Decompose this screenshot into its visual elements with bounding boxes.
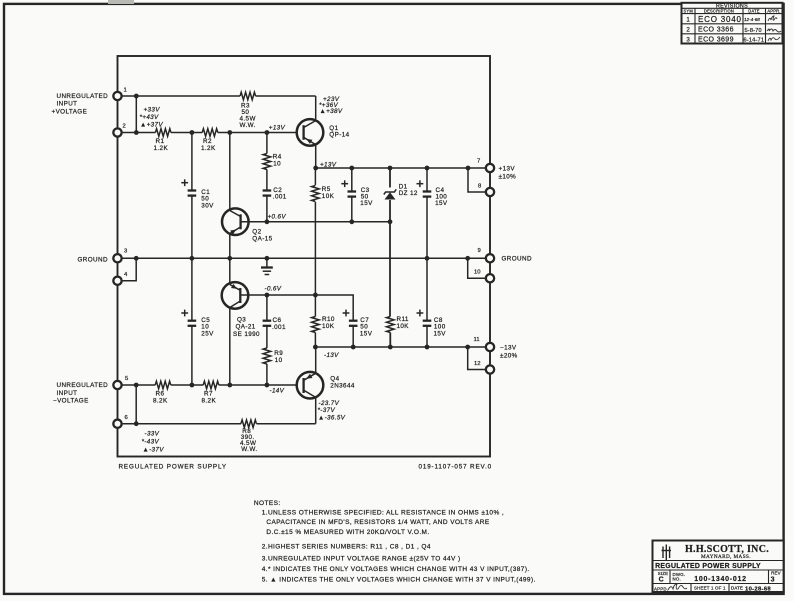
node D1 top xyxy=(388,166,393,171)
terminal 4 xyxy=(113,272,128,285)
node Q2/Q3 emitter ground xyxy=(227,256,232,261)
wire terminal 8 bracket xyxy=(468,168,490,192)
svg-text:11: 11 xyxy=(474,337,480,343)
node terminal 8 tap xyxy=(466,166,471,171)
resistor R9 xyxy=(263,348,283,364)
svg-text:CAPACITANCE IN MFD'S, RESIS: CAPACITANCE IN MFD'S, RESISTORS 1/4 WATT… xyxy=(266,519,489,526)
svg-text:3: 3 xyxy=(771,577,776,584)
wire C8 vertical xyxy=(426,258,428,320)
svg-text:±20%: ±20% xyxy=(500,352,518,359)
svg-text:2: 2 xyxy=(686,27,690,34)
svg-text:QA-15: QA-15 xyxy=(252,236,272,243)
node chassis ground stub xyxy=(265,256,270,261)
svg-text:DATE: DATE xyxy=(731,586,743,591)
capacitor C1 xyxy=(181,179,214,209)
svg-text:+VOLTAGE: +VOLTAGE xyxy=(52,108,88,115)
svg-text:+33V: +33V xyxy=(144,107,161,114)
svg-text:15V: 15V xyxy=(434,331,447,338)
svg-text:▲+38V: ▲+38V xyxy=(320,108,343,115)
svg-text:+13V: +13V xyxy=(269,124,286,131)
svg-text:*-37V: *-37V xyxy=(318,407,336,414)
wire terminal 12 bracket xyxy=(468,347,490,370)
svg-text:1.UNLESS OTHERWISE SPECIFIED: 1.UNLESS OTHERWISE SPECIFIED: ALL RESIST… xyxy=(262,510,504,517)
svg-text:D.C.±15 % MEASURED WITH 20K: D.C.±15 % MEASURED WITH 20KΩ/VOLT V.O.M. xyxy=(266,529,429,536)
svg-text:R7: R7 xyxy=(204,391,213,398)
svg-text:W.W.: W.W. xyxy=(240,122,256,129)
wire Q4 collector xyxy=(315,347,317,373)
node terminal 12 tap xyxy=(465,345,470,350)
wire R4-C2 chain vertical xyxy=(266,133,268,154)
wire terminal 5-6 bridge xyxy=(135,385,137,424)
svg-text:15V: 15V xyxy=(360,331,373,338)
resistor R7 xyxy=(202,381,219,405)
capacitor C3 xyxy=(341,180,373,207)
node junction R4 top xyxy=(265,130,270,135)
svg-text:12-4-68: 12-4-68 xyxy=(744,17,760,22)
svg-text:QA-21: QA-21 xyxy=(236,324,256,331)
svg-text:INPUT: INPUT xyxy=(57,390,78,397)
svg-text:3.UNREGULATED INPUT VOLTAG: 3.UNREGULATED INPUT VOLTAGE RANGE ±(25V … xyxy=(262,555,461,562)
svg-text:▲-37V: ▲-37V xyxy=(143,447,165,454)
transistor Q1 xyxy=(297,119,350,146)
svg-text:.001: .001 xyxy=(273,194,287,201)
transistor Q2 xyxy=(222,208,273,242)
svg-text:REV: REV xyxy=(771,571,781,576)
node R9 bottom xyxy=(265,383,270,388)
label drawing number xyxy=(419,464,492,471)
wire Q1 emitter to +13V rail xyxy=(315,146,317,169)
svg-text:3: 3 xyxy=(124,248,128,254)
wire -V rail terminal 5 to Q4 base xyxy=(118,384,156,386)
svg-text:-13V: -13V xyxy=(324,352,339,359)
svg-text:UNREGULATED: UNREGULATED xyxy=(57,93,109,100)
svg-text:ECO 3366: ECO 3366 xyxy=(698,26,734,33)
svg-text:SE 1990: SE 1990 xyxy=(233,331,260,338)
wire C7 tap xyxy=(315,295,353,321)
svg-text:1.2K: 1.2K xyxy=(201,145,216,152)
wire R10 bottom to -13V xyxy=(314,333,316,348)
terminal 7 xyxy=(477,159,494,173)
wire ground rail xyxy=(118,257,491,259)
svg-text:8: 8 xyxy=(478,184,482,190)
notes block xyxy=(254,500,536,583)
svg-text:SIZE: SIZE xyxy=(658,571,669,576)
wire terminal 4 bracket xyxy=(118,258,137,281)
label -13V output xyxy=(500,344,518,359)
title block xyxy=(653,541,784,593)
svg-text:15V: 15V xyxy=(360,200,373,207)
svg-text:R10: R10 xyxy=(322,316,335,323)
wire C3 vertical xyxy=(351,168,353,192)
node junction R2 right / Q2 collector xyxy=(227,130,232,135)
node C4 top xyxy=(425,166,430,171)
node C4 bottom ground xyxy=(425,256,430,261)
resistor R5 xyxy=(312,186,335,202)
svg-text:APPR.: APPR. xyxy=(767,8,780,13)
label regulated power supply xyxy=(119,464,227,471)
resistor R6 xyxy=(153,381,171,405)
svg-text:R6: R6 xyxy=(156,391,165,398)
node T3/T4 bridge xyxy=(134,256,139,261)
terminal 11 xyxy=(474,337,495,351)
wire +13V rail to terminal 7 xyxy=(316,167,490,169)
terminal 3 xyxy=(113,248,128,262)
svg-text:R9: R9 xyxy=(274,350,283,357)
wire C1 chain vertical xyxy=(191,133,193,191)
node C6 top xyxy=(265,293,270,298)
node C7 bottom xyxy=(351,345,356,350)
terminal 8 xyxy=(478,184,494,197)
svg-text:-14V: -14V xyxy=(270,388,285,395)
svg-text:+0.6V: +0.6V xyxy=(268,213,287,220)
wire C6-R9 chain xyxy=(266,295,268,321)
terminal 1 xyxy=(113,88,126,101)
resistor R1 xyxy=(154,129,171,152)
svg-text:2.HIGHEST SERIES NUMBERS:: 2.HIGHEST SERIES NUMBERS: R11 , C8 , D1 … xyxy=(262,544,431,551)
svg-text:ECO 3699: ECO 3699 xyxy=(698,36,734,43)
svg-text:Q2: Q2 xyxy=(252,229,261,236)
wire -0.6V node Q3 base to R5/R10 junction xyxy=(240,294,315,296)
svg-text:10: 10 xyxy=(201,324,209,331)
svg-text:APPD.: APPD. xyxy=(654,587,668,592)
svg-text:1.2K: 1.2K xyxy=(154,145,169,152)
label ground right xyxy=(502,256,532,263)
resistor R11 xyxy=(387,316,410,333)
svg-text:100-1340-012: 100-1340-012 xyxy=(694,576,747,583)
svg-text:-33V: -33V xyxy=(145,430,160,437)
capacitor C6 xyxy=(263,317,286,331)
svg-text:10K: 10K xyxy=(322,323,335,330)
svg-text:R4: R4 xyxy=(273,154,282,161)
svg-text:-23.7V: -23.7V xyxy=(319,400,340,407)
svg-text:8.2K: 8.2K xyxy=(202,398,217,405)
svg-text:10K: 10K xyxy=(397,323,410,330)
wire terminal 1-2 bridge xyxy=(135,96,137,133)
node C1/C5 ground xyxy=(190,256,195,261)
svg-text:▲+37V: ▲+37V xyxy=(140,122,163,129)
terminal 9 xyxy=(478,248,495,263)
svg-text:GROUND: GROUND xyxy=(78,257,108,264)
wire +0.6V node from Q2 base to D1 xyxy=(241,221,391,223)
wire C5 chain vertical xyxy=(191,258,193,320)
voltage annotations xyxy=(140,96,346,454)
svg-text:C: C xyxy=(659,577,665,584)
svg-text:1: 1 xyxy=(124,88,127,94)
svg-text:4: 4 xyxy=(124,272,128,278)
svg-text:NO.: NO. xyxy=(673,576,681,581)
revisions table xyxy=(682,3,783,44)
wire top rail from terminal 1 to Q1 collector corner xyxy=(118,95,241,97)
node C8 bottom xyxy=(425,345,430,350)
svg-text:6: 6 xyxy=(125,415,129,421)
node C2 bottom / +0.6V xyxy=(265,219,270,224)
svg-text:5. ▲ INDICATES THE ONLY: 5. ▲ INDICATES THE ONLY VOLTAGES WHICH C… xyxy=(262,576,536,583)
capacitor C2 xyxy=(263,187,287,201)
resistor R8 xyxy=(240,420,257,453)
label +13V output xyxy=(499,166,517,181)
svg-text:*+43V: *+43V xyxy=(140,114,160,121)
svg-text:GROUND: GROUND xyxy=(502,256,532,263)
svg-text:12: 12 xyxy=(474,361,481,367)
svg-text:2N3644: 2N3644 xyxy=(330,382,355,389)
node C3 bottom xyxy=(349,219,354,224)
H.H.Scott logo xyxy=(662,545,672,561)
node R11 bottom xyxy=(388,345,393,350)
wire terminal 6 to R8 to Q4 emitter xyxy=(118,423,242,425)
wire R5 vertical +13V to R10 xyxy=(314,168,316,185)
svg-text:15V: 15V xyxy=(435,200,448,207)
svg-text:10: 10 xyxy=(474,269,481,275)
svg-text:+13V: +13V xyxy=(320,161,337,168)
svg-text:.001: .001 xyxy=(272,324,286,331)
svg-text:▲-36.5V: ▲-36.5V xyxy=(318,414,346,421)
wire C4 vertical xyxy=(426,168,428,192)
svg-text:10-28-68: 10-28-68 xyxy=(745,586,771,592)
svg-text:QP-14: QP-14 xyxy=(329,131,349,138)
svg-text:REGULATED POWER SUPPLY: REGULATED POWER SUPPLY xyxy=(119,464,227,471)
node Q3 collector xyxy=(227,383,232,388)
svg-text:8.2K: 8.2K xyxy=(153,398,168,405)
transistor Q3 xyxy=(222,282,260,338)
svg-text:DATE: DATE xyxy=(748,8,759,13)
ground symbol xyxy=(266,258,268,267)
svg-text:-0.6V: -0.6V xyxy=(265,285,282,292)
svg-text:Q4: Q4 xyxy=(330,375,339,382)
svg-text:−VOLTAGE: −VOLTAGE xyxy=(53,398,89,405)
terminal 2 xyxy=(113,124,125,137)
svg-text:SYM: SYM xyxy=(683,8,693,13)
svg-text:REGULATED POWER SUPPLY: REGULATED POWER SUPPLY xyxy=(655,563,761,570)
capacitor C8 xyxy=(417,310,447,338)
terminal 10 xyxy=(474,269,494,282)
label unregulated input +voltage xyxy=(52,93,109,115)
svg-text:2: 2 xyxy=(123,124,126,130)
node R5/R10 junction xyxy=(313,293,318,298)
schematic boundary box xyxy=(118,56,491,457)
wire Q2/Q3 common vertical xyxy=(229,133,231,211)
svg-text:MAYNARD, MASS.: MAYNARD, MASS. xyxy=(701,554,751,560)
node junction R1-R2 / C1 top xyxy=(190,130,195,135)
resistor R4 xyxy=(263,154,282,170)
wire D1-R11 vertical xyxy=(389,168,391,188)
svg-text:5-8-70: 5-8-70 xyxy=(745,28,762,34)
svg-text:30V: 30V xyxy=(201,203,214,210)
svg-text:10: 10 xyxy=(275,357,283,364)
node D1 anode xyxy=(388,219,393,224)
capacitor C7 xyxy=(343,310,373,338)
resistor R2 xyxy=(201,129,218,152)
svg-text:SHEET 1 OF 1: SHEET 1 OF 1 xyxy=(694,586,726,591)
svg-text:019-1107-057 REV.0: 019-1107-057 REV.0 xyxy=(419,464,492,471)
wire base rail from terminal 2 to Q1 base xyxy=(118,132,156,134)
svg-text:Q3: Q3 xyxy=(237,317,246,324)
svg-text:7: 7 xyxy=(477,159,480,165)
svg-text:4.* INDICATES THE ONLY V: 4.* INDICATES THE ONLY VOLTAGES WHICH CH… xyxy=(262,566,530,573)
svg-text:6-14-71: 6-14-71 xyxy=(744,37,765,43)
svg-text:25V: 25V xyxy=(201,331,214,338)
node C5 bottom xyxy=(190,383,195,388)
svg-text:1: 1 xyxy=(686,17,690,24)
transistor Q4 xyxy=(297,372,355,399)
svg-text:9: 9 xyxy=(478,248,481,254)
svg-text:DESCRIPTION: DESCRIPTION xyxy=(704,8,734,13)
node terminal 10 tap xyxy=(465,256,470,261)
terminal 12 xyxy=(474,361,494,374)
zener diode D1 xyxy=(384,184,418,200)
svg-text:INPUT: INPUT xyxy=(57,101,78,108)
svg-text:3: 3 xyxy=(686,37,690,44)
label ground left xyxy=(78,257,108,264)
svg-text:−13V: −13V xyxy=(500,344,517,351)
resistor R10 xyxy=(312,316,335,333)
svg-text:5: 5 xyxy=(125,376,129,382)
terminal 6 xyxy=(113,415,128,428)
svg-text:R11: R11 xyxy=(397,316,409,323)
svg-text:10: 10 xyxy=(273,161,281,168)
node C3 top xyxy=(349,166,354,171)
label unregulated input -voltage xyxy=(53,382,108,404)
resistor R3 xyxy=(240,92,256,129)
svg-text:ECO 3040: ECO 3040 xyxy=(698,15,742,24)
svg-text:±10%: ±10% xyxy=(499,174,517,181)
svg-text:50: 50 xyxy=(360,324,368,331)
svg-text:W.W.: W.W. xyxy=(241,446,257,453)
capacitor C4 xyxy=(417,180,448,207)
terminal 5 xyxy=(113,376,129,389)
svg-text:100: 100 xyxy=(434,324,446,331)
svg-text:DZ 12: DZ 12 xyxy=(399,190,418,197)
svg-text:UNREGULATED: UNREGULATED xyxy=(57,382,109,389)
wire -13V rail xyxy=(315,346,490,348)
svg-text:R5: R5 xyxy=(322,186,331,193)
svg-text:10K: 10K xyxy=(322,193,335,200)
wire terminal 10 bracket xyxy=(468,258,490,278)
capacitor C5 xyxy=(181,310,214,338)
svg-text:50: 50 xyxy=(201,196,209,203)
svg-text:C6: C6 xyxy=(273,317,282,324)
svg-text:*-43V: *-43V xyxy=(142,438,160,445)
svg-text:+13V: +13V xyxy=(499,166,516,173)
svg-text:NOTES:: NOTES: xyxy=(254,500,281,507)
